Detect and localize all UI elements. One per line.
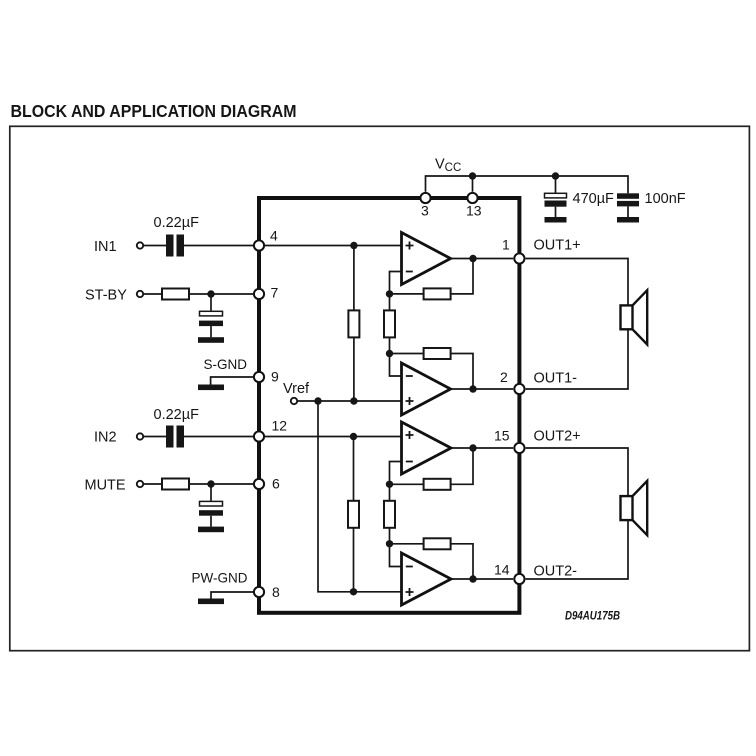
junction MUTE/C6 (207, 480, 214, 487)
title BLOCK AND APPLICATION DIAGRAM (11, 101, 297, 121)
pin 1 (502, 237, 525, 264)
terminal Vref (291, 398, 297, 404)
IC body U1 (259, 198, 519, 613)
ground PW-GND (198, 599, 224, 605)
label IN1 (94, 239, 117, 255)
value label 0.22uF (C1) (154, 215, 200, 231)
capacitor C4 100nF (617, 193, 639, 217)
wire op3 output to pin15 (451, 447, 513, 449)
svg-text:14: 14 (494, 562, 510, 578)
wire C1 to pin4 (184, 245, 259, 247)
junction fb3 (386, 481, 393, 488)
junction VCC-C3 (552, 172, 559, 179)
wire op2 output to pin2 (451, 388, 514, 390)
capacitor C3 470uF electrolytic (545, 193, 567, 217)
pin 13 (466, 193, 482, 219)
label OUT2+ (534, 429, 581, 445)
svg-text:D94AU175B: D94AU175B (565, 609, 620, 623)
ground (C3) (545, 217, 567, 223)
junction op1 out (469, 255, 476, 262)
svg-text:13: 13 (466, 203, 482, 219)
ground (C4) (617, 217, 639, 223)
label S-GND (204, 356, 248, 372)
label OUT1- (534, 371, 578, 387)
svg-text:OUT1+: OUT1+ (534, 238, 581, 254)
pin 3 (420, 193, 430, 219)
wire IN1 to C1 (143, 245, 166, 247)
svg-text:OUT1-: OUT1- (534, 371, 578, 387)
terminal IN2 (137, 433, 143, 439)
wire pin9 to ground (211, 377, 259, 385)
wire Vref rail to op2 + (297, 400, 401, 402)
capacitor C5 0.22uF (166, 426, 184, 448)
pin 8 (254, 584, 280, 600)
svg-text:2: 2 (500, 369, 508, 385)
resistor R6 feedback op2 (424, 348, 451, 359)
op-amp U1D (402, 553, 452, 605)
svg-text:S-GND: S-GND (204, 356, 248, 372)
svg-text:BLOCK AND APPLICATION DIAGRAM: BLOCK AND APPLICATION DIAGRAM (11, 101, 297, 121)
terminal IN1 (137, 242, 143, 248)
wire C5 to pin12 (184, 436, 259, 438)
junction fb2 (386, 350, 393, 357)
pin 9 (254, 369, 279, 385)
value label 0.22uF (C5) (154, 407, 200, 423)
net VCC label (435, 157, 461, 175)
wire pin2 to speaker SP1 bottom (526, 329, 628, 389)
pin 4 (254, 228, 278, 251)
svg-text:1: 1 (502, 237, 510, 253)
wire R7 chain IN2 to bottom rail (353, 437, 355, 592)
pin 12 (254, 417, 287, 441)
svg-text:4: 4 (270, 228, 278, 244)
junction fb1 (386, 290, 393, 297)
junction bottom rail (350, 588, 357, 595)
wire R3 chain IN1 to Vref (353, 246, 355, 402)
speaker SP1 (621, 290, 648, 344)
svg-text:Vref: Vref (283, 381, 310, 397)
resistor R4 feedback op1 (424, 288, 451, 299)
wire op1 feedback (390, 259, 474, 294)
wire pin1 to speaker SP1 top (526, 259, 628, 306)
capacitor C6 electrolytic (199, 501, 223, 526)
svg-text:OUT2-: OUT2- (534, 564, 578, 580)
label OUT1+ (534, 238, 581, 254)
wire R2 to pin6 (189, 483, 259, 485)
label OUT2- (534, 564, 578, 580)
svg-text:MUTE: MUTE (85, 477, 126, 493)
capacitor C2 electrolytic (199, 311, 223, 337)
wire junction to C6 (210, 484, 212, 501)
junction IN1/R3 (350, 242, 357, 249)
wire pin14 to speaker SP2 bottom (526, 520, 628, 579)
resistor R7 (348, 501, 359, 528)
wire MUTE to R2 (143, 483, 162, 485)
pin 7 (254, 285, 279, 301)
svg-text:6: 6 (272, 476, 280, 492)
resistor R9 between fb3 and fb4 (384, 484, 395, 544)
resistor R1 (162, 289, 189, 300)
op-amp U1A (402, 233, 451, 285)
label ST-BY (85, 287, 127, 303)
svg-text:12: 12 (272, 417, 288, 433)
pin 2 (500, 369, 525, 394)
wire op3 feedback (390, 448, 474, 484)
svg-text:0.22µF: 0.22µF (154, 407, 200, 423)
wire op1 output to pin1 (451, 258, 514, 260)
resistor R5 between fb1 and fb2 (384, 294, 395, 354)
svg-text:IN1: IN1 (94, 239, 117, 255)
svg-text:OUT2+: OUT2+ (534, 429, 581, 445)
junction fb4 (386, 540, 393, 547)
wire R1 to pin7 (189, 293, 259, 295)
svg-text:15: 15 (494, 428, 510, 444)
terminal ST-BY (137, 291, 143, 297)
drawing number D94AU175B (565, 609, 620, 623)
svg-text:VCC: VCC (435, 157, 461, 175)
resistor R10 feedback op4 (424, 538, 451, 549)
junction op3 out (469, 444, 476, 451)
pin 6 (254, 476, 280, 492)
ground (C2) (198, 337, 224, 343)
junction op4 out (469, 575, 476, 582)
wire pin12 to op3 + input (259, 436, 402, 438)
speaker SP2 (621, 481, 648, 535)
junction VCC-pin13 (469, 172, 476, 179)
wire ST-BY to R1 (143, 293, 162, 295)
wire junction to C2 (210, 294, 212, 311)
svg-text:8: 8 (272, 584, 280, 600)
resistor R3 (348, 310, 359, 337)
wire op4 output to pin14 (451, 578, 513, 580)
svg-text:470µF: 470µF (573, 191, 615, 207)
svg-text:IN2: IN2 (94, 430, 117, 446)
terminal MUTE (137, 481, 143, 487)
wire op2 feedback (390, 354, 474, 390)
frame border (10, 126, 750, 650)
ground (C6) (198, 527, 224, 533)
op-amp U1B (402, 363, 451, 415)
svg-text:9: 9 (271, 369, 279, 385)
svg-text:3: 3 (421, 203, 429, 219)
wire VCC rail (426, 176, 629, 193)
junction Vref/down (314, 397, 321, 404)
pin 15 (494, 428, 525, 454)
wire pin15 to speaker SP2 top (526, 448, 628, 496)
wire pin8 to ground (211, 592, 259, 599)
wire Vref down to bottom rail (318, 401, 402, 592)
value label 100nF (645, 191, 686, 207)
wire op4 feedback (390, 544, 474, 579)
svg-text:ST-BY: ST-BY (85, 287, 127, 303)
junction Vref/R3 (350, 397, 357, 404)
wire IN2 to C5 (143, 436, 166, 438)
wire pin4 to op1 + input (259, 245, 402, 247)
ground S-GND (198, 385, 224, 391)
label Vref (283, 381, 310, 397)
resistor R2 (162, 479, 189, 490)
label MUTE (85, 477, 126, 493)
junction IN2/R7 (350, 433, 357, 440)
label PW-GND (192, 569, 248, 585)
value label 470uF (573, 191, 615, 207)
svg-text:100nF: 100nF (645, 191, 686, 207)
svg-text:0.22µF: 0.22µF (154, 215, 200, 231)
svg-text:PW-GND: PW-GND (192, 569, 248, 585)
pin 14 (494, 562, 525, 585)
capacitor C1 0.22uF (166, 235, 184, 257)
junction ST-BY/C2 (207, 290, 214, 297)
resistor R8 feedback op3 (424, 479, 451, 490)
junction op2 out (469, 385, 476, 392)
op-amp U1C (402, 422, 452, 474)
label IN2 (94, 430, 117, 446)
svg-text:7: 7 (271, 285, 279, 301)
